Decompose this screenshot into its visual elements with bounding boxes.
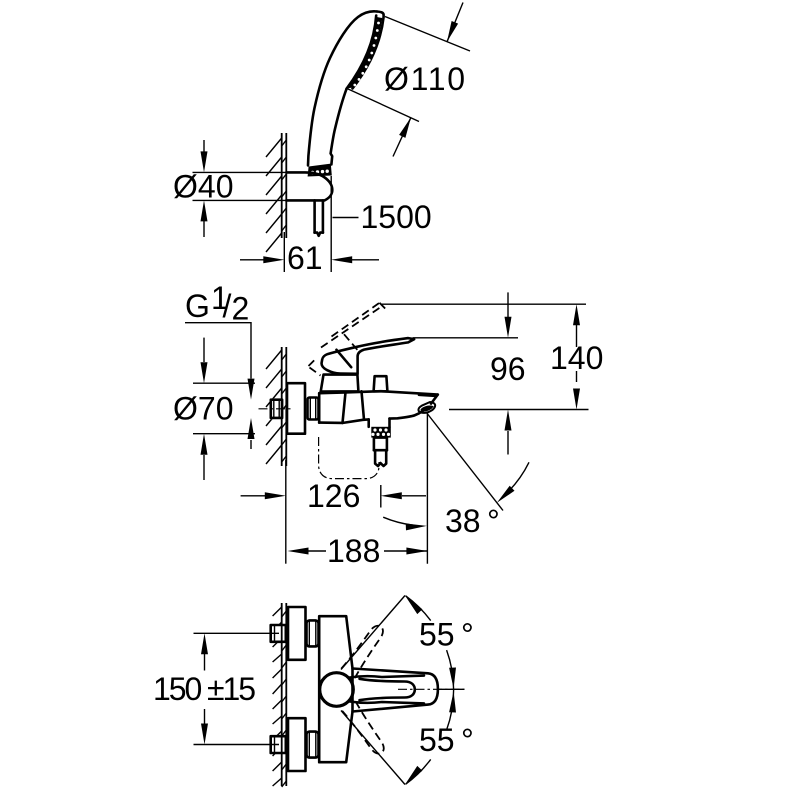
escutcheon flange	[288, 607, 306, 660]
escutcheon flange	[288, 718, 306, 771]
dimension 140	[381, 304, 604, 409]
phantom handle at -55deg (dashed)	[342, 701, 388, 757]
diverter knob	[374, 376, 388, 391]
knurled hose nut (dark with dots)	[371, 427, 391, 438]
svg-text:G: G	[185, 288, 210, 324]
svg-text:Ø110: Ø110	[384, 61, 465, 97]
55 degree dimension (upper)	[341, 596, 474, 691]
water stream line and 38 degree angle	[383, 413, 529, 539]
S-union nut	[307, 732, 319, 758]
wall section (bottom view)	[269, 603, 287, 787]
svg-text:96: 96	[490, 351, 526, 387]
shower hose below holder	[315, 200, 323, 235]
lever handle (rest position)	[322, 338, 415, 374]
lever knob and grip (top view)	[320, 673, 424, 707]
mixer body (top view)	[319, 616, 352, 762]
svg-text:126: 126	[307, 478, 360, 514]
55 degree dimension (lower)	[341, 690, 474, 785]
dimension 150 +/-15	[153, 633, 279, 744]
label 1500 (hose length)	[333, 199, 432, 235]
hose connector cone	[374, 438, 387, 466]
S-union nut	[307, 620, 319, 646]
G 1/2 connection nipple (hex, behind wall)	[271, 400, 282, 418]
dimension Ø110	[347, 3, 470, 157]
centerline of nipple	[259, 408, 293, 410]
dimension Ø40	[172, 140, 313, 237]
dimension 61	[240, 176, 379, 276]
svg-text:55 °: 55 °	[419, 722, 474, 758]
svg-text:Ø70: Ø70	[173, 391, 233, 427]
phantom handle at +55deg (dashed)	[341, 622, 387, 678]
spout (top view)	[353, 669, 438, 712]
svg-text:188: 188	[327, 533, 380, 569]
dimension 126	[241, 460, 426, 564]
svg-text:1500: 1500	[361, 199, 432, 235]
shower outlet block	[369, 419, 390, 427]
angle reference line (horizontal)	[437, 688, 465, 690]
escutcheon flange Ø70	[287, 383, 305, 434]
hose nut (knurled) at grip end	[308, 164, 332, 177]
lever handle phantom (raised position, dashed)	[309, 303, 386, 376]
svg-text:55 °: 55 °	[419, 617, 474, 653]
svg-text:Ø40: Ø40	[173, 169, 233, 205]
handle centerline	[398, 688, 465, 690]
dimension 188	[288, 413, 428, 569]
inlet union nut through wall	[271, 736, 286, 753]
svg-text:38 °: 38 °	[445, 503, 500, 539]
wall section (top view)	[266, 133, 286, 252]
wall holder	[286, 172, 332, 200]
clearance curve (dash-dot) below body	[319, 437, 379, 479]
dimension Ø70	[172, 338, 255, 480]
svg-text:/: /	[223, 288, 232, 324]
svg-text:140: 140	[550, 340, 603, 376]
hand shower head and grip	[308, 11, 384, 165]
dimension 96	[413, 292, 589, 454]
cartridge cap	[321, 375, 359, 392]
inlet union nut through wall	[271, 625, 286, 642]
svg-text:61: 61	[287, 240, 323, 276]
dimension G 1/2 (label and leader)	[185, 280, 255, 449]
wall section (middle view)	[266, 347, 286, 466]
svg-text:2: 2	[232, 291, 250, 327]
mixer body and spout (side)	[319, 391, 438, 423]
S-union nut	[308, 398, 319, 420]
svg-text:150 ±15: 150 ±15	[153, 671, 256, 707]
